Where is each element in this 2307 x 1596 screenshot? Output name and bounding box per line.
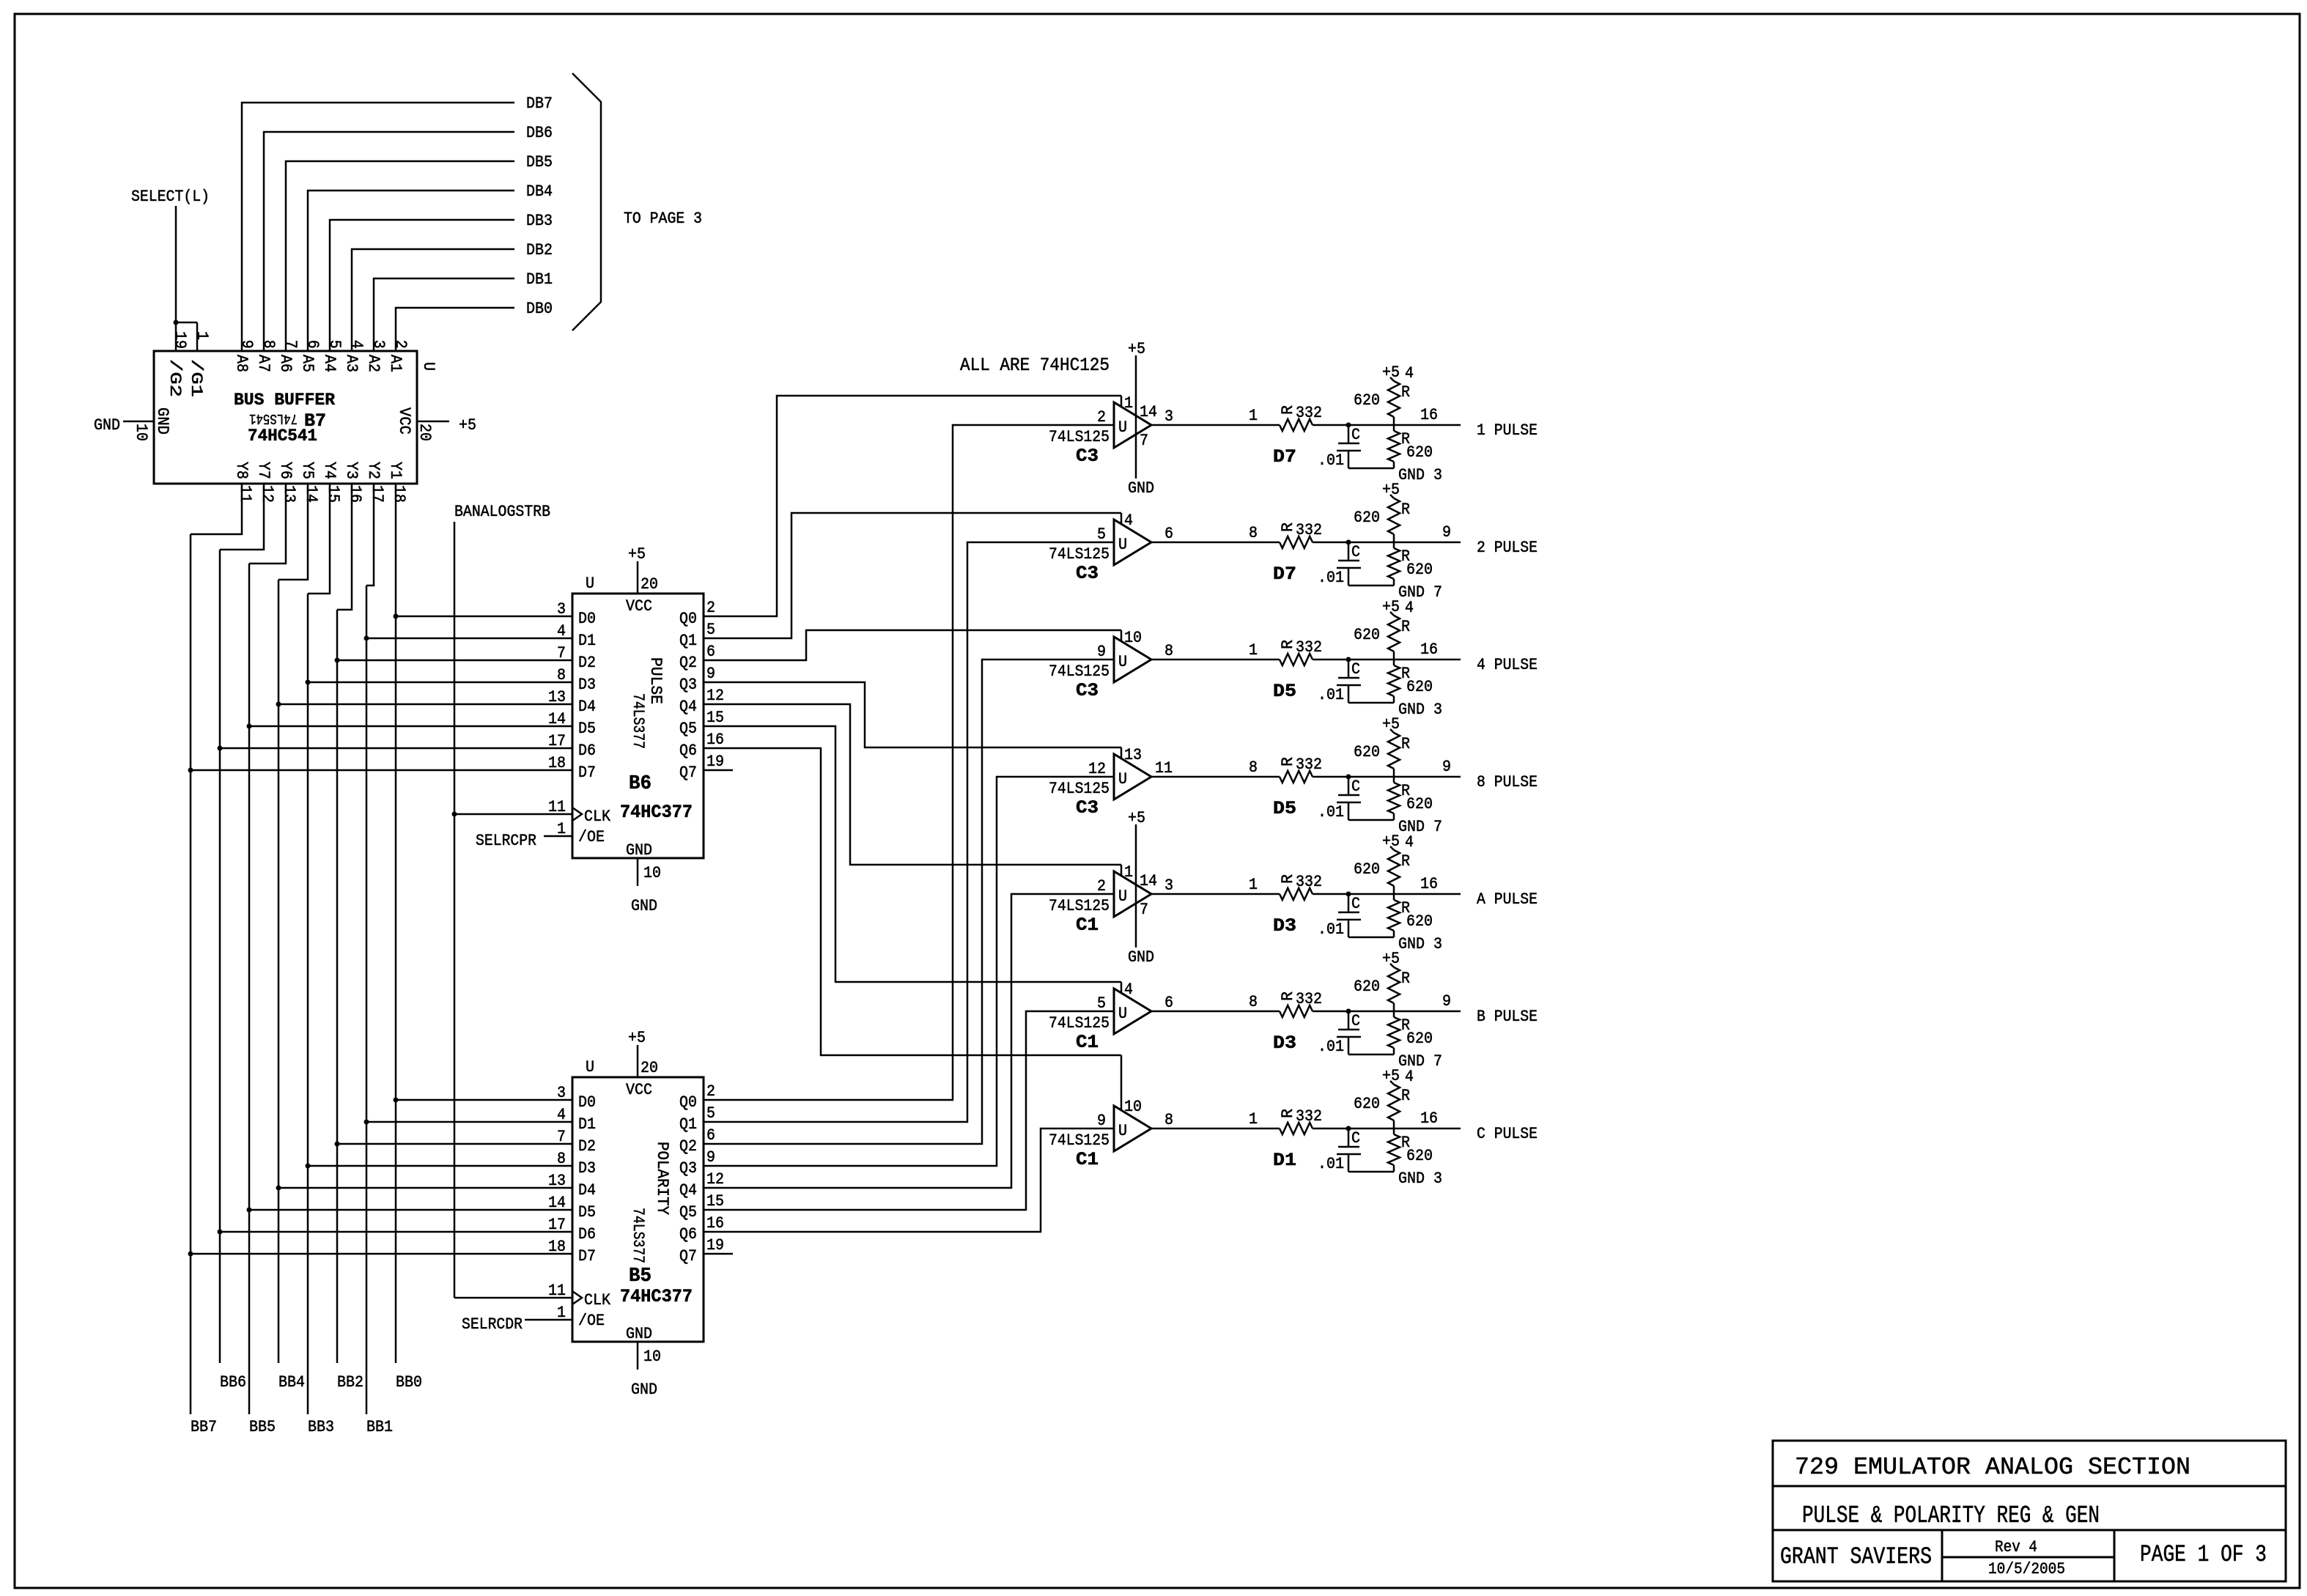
svg-text:C: C: [1351, 1129, 1360, 1148]
svg-text:BB2: BB2: [337, 1373, 363, 1392]
svg-text:C: C: [1351, 1012, 1360, 1030]
svg-text:74LS125: 74LS125: [1049, 897, 1110, 915]
svg-text:332: 332: [1296, 990, 1322, 1008]
svg-text:+5: +5: [628, 545, 646, 564]
svg-text:13: 13: [548, 688, 566, 706]
svg-text:C3: C3: [1076, 446, 1099, 467]
svg-text:332: 332: [1296, 1107, 1322, 1126]
svg-text:12: 12: [1088, 760, 1106, 778]
svg-text:R: R: [1401, 383, 1410, 402]
svg-text:A7: A7: [254, 355, 273, 372]
svg-text:332: 332: [1296, 755, 1322, 774]
svg-text:D7: D7: [1273, 446, 1296, 468]
svg-text:17: 17: [368, 485, 386, 503]
svg-text:R: R: [1279, 874, 1297, 884]
svg-text:+5: +5: [1382, 598, 1400, 616]
svg-text:A2: A2: [364, 355, 383, 372]
svg-text:Q3: Q3: [679, 676, 697, 694]
svg-text:74LS125: 74LS125: [1049, 1131, 1110, 1150]
svg-text:Q2: Q2: [679, 1137, 697, 1156]
svg-text:U: U: [586, 575, 594, 593]
svg-text:.01: .01: [1318, 920, 1344, 939]
svg-text:+5: +5: [1382, 715, 1400, 734]
svg-text:BUS BUFFER: BUS BUFFER: [234, 391, 335, 410]
svg-text:BB7: BB7: [191, 1418, 217, 1436]
svg-text:74HC377: 74HC377: [620, 1286, 693, 1307]
svg-text:1: 1: [1249, 876, 1258, 894]
svg-text:C3: C3: [1076, 563, 1099, 584]
svg-text:+5: +5: [1382, 832, 1400, 851]
svg-text:16: 16: [1420, 406, 1438, 424]
svg-text:5: 5: [1097, 525, 1106, 544]
svg-text:620: 620: [1354, 860, 1380, 879]
svg-text:.01: .01: [1318, 686, 1344, 704]
svg-text:GND 3: GND 3: [1398, 701, 1442, 719]
svg-text:CLK: CLK: [584, 808, 611, 826]
svg-text:SELRCPR: SELRCPR: [476, 832, 536, 850]
svg-text:8 PULSE: 8 PULSE: [1477, 773, 1538, 791]
svg-text:D0: D0: [578, 1093, 596, 1112]
svg-text:10: 10: [1124, 629, 1142, 647]
svg-text:U: U: [586, 1058, 594, 1076]
svg-text:A8: A8: [232, 355, 251, 372]
svg-text:GND: GND: [1128, 948, 1154, 967]
svg-text:R: R: [1401, 969, 1410, 988]
svg-text:GND: GND: [626, 1325, 652, 1343]
svg-text:D0: D0: [578, 610, 596, 628]
svg-text:C: C: [1351, 543, 1360, 561]
svg-text:14: 14: [302, 485, 320, 503]
svg-text:R: R: [1401, 735, 1410, 753]
svg-text:12: 12: [258, 485, 276, 503]
svg-text:8: 8: [1249, 524, 1258, 542]
svg-text:R: R: [1279, 405, 1297, 415]
svg-text:4: 4: [1124, 511, 1133, 530]
svg-text:620: 620: [1406, 561, 1433, 579]
svg-text:9: 9: [237, 340, 256, 349]
svg-text:4: 4: [1405, 833, 1414, 851]
svg-text:Q3: Q3: [679, 1159, 697, 1178]
svg-text:1: 1: [1249, 1110, 1258, 1128]
svg-text:Q2: Q2: [679, 654, 697, 672]
svg-text:9: 9: [1442, 758, 1451, 776]
svg-text:20: 20: [641, 1059, 658, 1077]
svg-text:9: 9: [706, 1148, 715, 1167]
svg-text:Q6: Q6: [679, 1225, 697, 1244]
svg-text:16: 16: [706, 731, 724, 749]
svg-text:R: R: [1279, 640, 1297, 649]
svg-text:7: 7: [557, 644, 566, 662]
svg-text:PAGE 1 OF 3: PAGE 1 OF 3: [2140, 1541, 2267, 1568]
svg-text:POLARITY: POLARITY: [653, 1142, 671, 1215]
svg-text:.01: .01: [1318, 1038, 1344, 1056]
svg-text:D5: D5: [578, 1203, 596, 1222]
svg-text:BB0: BB0: [396, 1373, 422, 1392]
svg-text:Q4: Q4: [679, 698, 697, 716]
svg-text:GND: GND: [153, 407, 171, 435]
svg-text:PULSE: PULSE: [646, 657, 665, 704]
svg-text:/G2: /G2: [166, 359, 184, 397]
svg-text:5: 5: [706, 621, 715, 639]
svg-text:U: U: [1118, 887, 1127, 906]
svg-text:3: 3: [369, 340, 388, 349]
svg-text:D7: D7: [578, 1247, 596, 1266]
svg-text:620: 620: [1354, 978, 1380, 996]
svg-text:12: 12: [706, 687, 724, 705]
svg-text:620: 620: [1406, 443, 1433, 462]
svg-text:332: 332: [1296, 638, 1322, 657]
svg-text:620: 620: [1354, 743, 1380, 761]
svg-text:R: R: [1401, 852, 1410, 871]
svg-text:1: 1: [1124, 394, 1133, 413]
svg-text:Y8: Y8: [232, 462, 251, 479]
svg-text:D6: D6: [578, 1225, 596, 1244]
svg-text:18: 18: [390, 485, 408, 503]
svg-text:20: 20: [641, 575, 658, 594]
svg-text:Q5: Q5: [679, 720, 697, 738]
svg-text:7: 7: [557, 1128, 566, 1146]
svg-text:SELECT(L): SELECT(L): [131, 188, 210, 206]
svg-text:1: 1: [1249, 407, 1258, 425]
svg-text:Q0: Q0: [679, 1093, 697, 1112]
svg-text:10: 10: [643, 1348, 661, 1366]
svg-text:B PULSE: B PULSE: [1477, 1008, 1538, 1026]
svg-text:Y5: Y5: [298, 462, 317, 479]
svg-text:1: 1: [1124, 863, 1133, 882]
svg-text:C: C: [1351, 426, 1360, 444]
svg-text:74LS125: 74LS125: [1049, 1014, 1110, 1032]
svg-text:DB7: DB7: [526, 95, 553, 113]
svg-text:D7: D7: [578, 764, 596, 782]
svg-text:D3: D3: [578, 1159, 596, 1178]
svg-text:C: C: [1351, 777, 1360, 796]
svg-text:74LS125: 74LS125: [1049, 545, 1110, 564]
svg-text:Y4: Y4: [320, 462, 339, 479]
svg-text:16: 16: [1420, 1109, 1438, 1128]
svg-text:18: 18: [548, 1238, 566, 1256]
svg-text:14: 14: [1140, 403, 1157, 421]
svg-text:A3: A3: [342, 355, 361, 372]
svg-text:5: 5: [325, 340, 344, 349]
svg-text:17: 17: [548, 1216, 566, 1234]
svg-text:74LS125: 74LS125: [1049, 780, 1110, 798]
svg-text:C: C: [1351, 660, 1360, 679]
svg-text:DB0: DB0: [526, 300, 553, 318]
svg-text:DB5: DB5: [526, 153, 553, 171]
svg-text:9: 9: [1097, 643, 1106, 661]
svg-text:620: 620: [1406, 678, 1433, 696]
svg-text:10: 10: [132, 424, 150, 441]
svg-text:.01: .01: [1318, 451, 1344, 470]
svg-text:C1: C1: [1076, 1149, 1099, 1170]
svg-text:14: 14: [548, 1194, 566, 1212]
svg-text:74LS125: 74LS125: [1049, 428, 1110, 446]
svg-text:GND 3: GND 3: [1398, 1170, 1442, 1188]
svg-text:+5: +5: [628, 1029, 646, 1047]
svg-text:BB4: BB4: [278, 1373, 305, 1392]
svg-text:74HC377: 74HC377: [620, 802, 693, 823]
svg-text:U: U: [1118, 653, 1127, 671]
svg-text:D2: D2: [578, 1137, 596, 1156]
svg-text:SELRCDR: SELRCDR: [462, 1315, 523, 1334]
svg-text:D5: D5: [578, 720, 596, 738]
svg-text:ALL ARE 74HC125: ALL ARE 74HC125: [960, 355, 1110, 376]
svg-text:Q4: Q4: [679, 1181, 697, 1200]
svg-text:74LS541: 74LS541: [249, 410, 298, 426]
svg-text:/OE: /OE: [578, 828, 605, 846]
svg-text:8: 8: [1249, 993, 1258, 1011]
svg-text:.01: .01: [1318, 803, 1344, 821]
svg-text:BB1: BB1: [366, 1418, 393, 1436]
svg-text:74LS377: 74LS377: [629, 1208, 647, 1263]
svg-text:GND 3: GND 3: [1398, 935, 1442, 953]
svg-text:8: 8: [557, 666, 566, 684]
svg-text:C1: C1: [1076, 1032, 1099, 1053]
svg-text:16: 16: [706, 1214, 724, 1233]
svg-text:U: U: [1118, 770, 1127, 788]
svg-text:13: 13: [1124, 746, 1142, 764]
svg-text:U: U: [1118, 536, 1127, 554]
svg-text:8: 8: [557, 1150, 566, 1168]
svg-text:19: 19: [171, 331, 189, 349]
svg-text:6: 6: [706, 643, 715, 661]
svg-text:BANALOGSTRB: BANALOGSTRB: [454, 503, 550, 521]
svg-text:5: 5: [706, 1104, 715, 1123]
svg-text:5: 5: [1097, 994, 1106, 1013]
svg-text:11: 11: [236, 485, 254, 503]
svg-text:4: 4: [1405, 364, 1414, 383]
svg-text:9: 9: [706, 665, 715, 683]
svg-text:DB2: DB2: [526, 241, 553, 259]
svg-text:A5: A5: [298, 355, 317, 372]
svg-text:7: 7: [1140, 432, 1148, 450]
svg-text:D4: D4: [578, 698, 596, 716]
svg-text:D3: D3: [1273, 1032, 1296, 1054]
svg-text:Y2: Y2: [364, 462, 383, 479]
svg-text:.01: .01: [1318, 569, 1344, 587]
svg-text:Q5: Q5: [679, 1203, 697, 1222]
svg-text:BB3: BB3: [308, 1418, 334, 1436]
svg-text:D4: D4: [578, 1181, 596, 1200]
svg-text:6: 6: [706, 1126, 715, 1145]
svg-text:620: 620: [1406, 795, 1433, 813]
svg-text:2: 2: [706, 599, 715, 617]
svg-text:D7: D7: [1273, 564, 1296, 585]
svg-text:16: 16: [346, 485, 364, 503]
svg-text:Rev 4: Rev 4: [1995, 1538, 2037, 1556]
svg-text:Y7: Y7: [254, 462, 273, 479]
svg-text:620: 620: [1354, 626, 1380, 644]
svg-text:74LS125: 74LS125: [1049, 662, 1110, 681]
svg-text:332: 332: [1296, 404, 1322, 422]
svg-text:C PULSE: C PULSE: [1477, 1125, 1538, 1143]
svg-text:6: 6: [1164, 525, 1173, 543]
svg-text:3: 3: [1164, 407, 1173, 426]
svg-text:14: 14: [1140, 872, 1157, 890]
svg-text:VCC: VCC: [626, 1081, 652, 1099]
svg-text:+5: +5: [1382, 1067, 1400, 1085]
svg-text:GND: GND: [631, 897, 657, 915]
svg-text:10/5/2005: 10/5/2005: [1988, 1560, 2065, 1578]
svg-text:GND: GND: [94, 416, 120, 435]
svg-text:Y6: Y6: [276, 462, 295, 479]
svg-text:VCC: VCC: [626, 597, 652, 616]
svg-text:BB6: BB6: [220, 1373, 246, 1392]
svg-text:R: R: [1401, 1087, 1410, 1105]
svg-text:+5: +5: [1128, 809, 1145, 827]
svg-text:R: R: [1279, 1109, 1297, 1118]
svg-text:DB1: DB1: [526, 270, 553, 289]
svg-text:620: 620: [1406, 1147, 1433, 1165]
svg-text:TO PAGE 3: TO PAGE 3: [624, 210, 702, 228]
svg-text:11: 11: [1155, 759, 1173, 777]
svg-text:C1: C1: [1076, 915, 1099, 936]
svg-text:14: 14: [548, 710, 566, 728]
svg-text:2: 2: [1097, 877, 1106, 895]
svg-text:10: 10: [643, 864, 661, 882]
svg-text:19: 19: [706, 1236, 724, 1255]
svg-text:Y3: Y3: [342, 462, 361, 479]
svg-text:DB4: DB4: [526, 182, 553, 201]
svg-text:620: 620: [1354, 1095, 1380, 1113]
svg-text:CLK: CLK: [584, 1291, 611, 1309]
svg-text:9: 9: [1097, 1112, 1106, 1130]
svg-text:3: 3: [557, 600, 566, 618]
svg-text:D3: D3: [1273, 915, 1296, 936]
svg-text:Q7: Q7: [679, 764, 697, 782]
svg-text:13: 13: [548, 1172, 566, 1190]
svg-text:18: 18: [548, 754, 566, 772]
svg-text:Q6: Q6: [679, 742, 697, 760]
svg-text:2: 2: [391, 340, 410, 349]
svg-text:8: 8: [1249, 758, 1258, 777]
svg-text:8: 8: [259, 340, 278, 349]
svg-text:620: 620: [1354, 391, 1380, 410]
svg-text:D3: D3: [578, 676, 596, 694]
svg-text:Q7: Q7: [679, 1247, 697, 1266]
svg-text:12: 12: [706, 1170, 724, 1189]
svg-text:GND: GND: [631, 1381, 657, 1399]
svg-text:9: 9: [1442, 523, 1451, 542]
svg-text:1: 1: [193, 331, 211, 340]
svg-text:U: U: [419, 362, 438, 371]
svg-text:8: 8: [1164, 642, 1173, 660]
svg-text:+5: +5: [1382, 481, 1400, 499]
svg-text:D6: D6: [578, 742, 596, 760]
svg-text:Q1: Q1: [679, 1115, 697, 1134]
svg-text:C: C: [1351, 895, 1360, 913]
svg-text:3: 3: [557, 1084, 566, 1102]
svg-text:332: 332: [1296, 873, 1322, 891]
svg-text:VCC: VCC: [395, 407, 413, 435]
svg-text:4: 4: [1405, 599, 1414, 617]
svg-text:GND 3: GND 3: [1398, 466, 1442, 484]
svg-text:Q0: Q0: [679, 610, 697, 628]
svg-text:R: R: [1279, 522, 1297, 532]
svg-text:U: U: [1118, 1005, 1127, 1023]
svg-text:74HC541: 74HC541: [248, 426, 317, 446]
svg-text:A6: A6: [276, 355, 295, 372]
svg-text:R: R: [1279, 757, 1297, 766]
svg-text:7: 7: [1140, 901, 1148, 919]
svg-text:BB5: BB5: [249, 1418, 276, 1436]
svg-text:DB6: DB6: [526, 124, 553, 142]
svg-text:4: 4: [557, 622, 566, 640]
svg-text:U: U: [1118, 1122, 1127, 1140]
svg-text:D1: D1: [1273, 1150, 1296, 1171]
svg-text:A4: A4: [320, 355, 339, 372]
svg-text:R: R: [1279, 991, 1297, 1001]
svg-text:B6: B6: [629, 773, 652, 795]
svg-text:D5: D5: [1273, 798, 1296, 819]
svg-text:Q1: Q1: [679, 632, 697, 650]
svg-text:R: R: [1401, 500, 1410, 519]
svg-text:6: 6: [1164, 994, 1173, 1012]
svg-text:+5: +5: [1382, 363, 1400, 382]
svg-text:R: R: [1401, 618, 1410, 636]
svg-text:A PULSE: A PULSE: [1477, 890, 1538, 909]
svg-text:4: 4: [1405, 1068, 1414, 1086]
svg-text:2 PULSE: 2 PULSE: [1477, 539, 1538, 557]
svg-text:DB3: DB3: [526, 212, 553, 230]
svg-text:.01: .01: [1318, 1155, 1344, 1173]
svg-text:15: 15: [706, 1192, 724, 1211]
svg-text:C3: C3: [1076, 680, 1099, 701]
svg-text:2: 2: [706, 1082, 715, 1101]
svg-text:1 PULSE: 1 PULSE: [1477, 421, 1538, 440]
svg-text:A1: A1: [386, 355, 405, 372]
svg-text:GRANT SAVIERS: GRANT SAVIERS: [1780, 1543, 1932, 1570]
svg-text:620: 620: [1354, 509, 1380, 527]
svg-text:D2: D2: [578, 654, 596, 672]
svg-text:D1: D1: [578, 632, 596, 650]
svg-text:9: 9: [1442, 992, 1451, 1011]
svg-text:B5: B5: [629, 1266, 652, 1287]
svg-text:729 EMULATOR ANALOG SECTION: 729 EMULATOR ANALOG SECTION: [1795, 1454, 2190, 1481]
svg-text:GND: GND: [1128, 479, 1154, 498]
svg-text:C3: C3: [1076, 797, 1099, 819]
svg-text:74LS377: 74LS377: [629, 693, 647, 749]
svg-text:15: 15: [706, 709, 724, 727]
svg-text:4: 4: [557, 1106, 566, 1124]
svg-text:19: 19: [706, 753, 724, 771]
svg-text:/OE: /OE: [578, 1312, 605, 1330]
svg-text:U: U: [1118, 418, 1127, 437]
svg-text:20: 20: [416, 424, 434, 441]
svg-text:332: 332: [1296, 521, 1322, 539]
svg-text:17: 17: [548, 732, 566, 750]
svg-text:16: 16: [1420, 875, 1438, 893]
svg-text:7: 7: [281, 340, 300, 349]
svg-text:16: 16: [1420, 640, 1438, 659]
svg-text:+5: +5: [459, 416, 476, 435]
svg-text:2: 2: [1097, 408, 1106, 426]
svg-text:GND: GND: [626, 841, 652, 860]
svg-text:10: 10: [1124, 1098, 1142, 1116]
svg-text:3: 3: [1164, 876, 1173, 895]
svg-text:15: 15: [324, 485, 342, 503]
svg-text:4 PULSE: 4 PULSE: [1477, 656, 1538, 674]
svg-text:13: 13: [280, 485, 298, 503]
svg-text:4: 4: [1124, 980, 1133, 999]
svg-text:8: 8: [1164, 1111, 1173, 1129]
svg-text:6: 6: [303, 340, 322, 349]
svg-text:1: 1: [1249, 641, 1258, 660]
svg-text:PULSE & POLARITY REG & GEN: PULSE & POLARITY REG & GEN: [1802, 1502, 2100, 1529]
svg-text:620: 620: [1406, 1030, 1433, 1048]
svg-text:4: 4: [347, 340, 366, 349]
svg-text:Y1: Y1: [386, 462, 405, 479]
